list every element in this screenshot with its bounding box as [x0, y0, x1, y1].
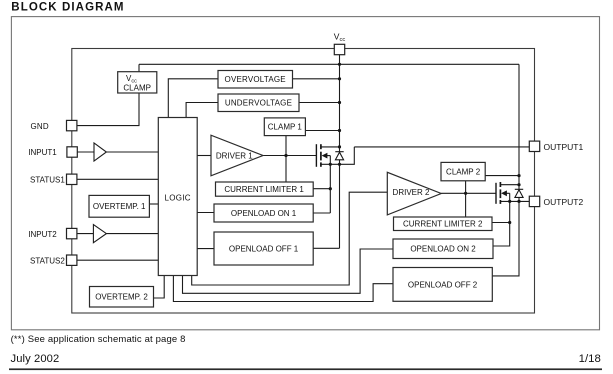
wire overtemp1 to logic — [149, 203, 158, 205]
wire STATUS1 pin to logic — [77, 178, 158, 180]
wire logic bottom to overtemp2 — [154, 276, 165, 299]
svg-text:GND: GND — [31, 122, 49, 131]
wire clamp1 bottom to current limiter 1 top — [285, 136, 287, 182]
wire clamp2 right to Q2 drain rail — [485, 175, 519, 177]
wire driver2 output to Q2 gate — [441, 192, 496, 194]
wire Q1 source to output riser — [321, 147, 354, 164]
svg-text:OVERTEMP. 2: OVERTEMP. 2 — [95, 293, 148, 302]
svg-text:July 2002: July 2002 — [11, 353, 60, 365]
pin INPUT1 — [28, 147, 77, 157]
svg-text:STATUS2: STATUS2 — [30, 256, 65, 265]
pin STATUS2 — [30, 255, 77, 265]
wire undervoltage left to logic top — [186, 103, 218, 118]
wire clamp2 bottom to current limiter 2 top — [465, 181, 467, 217]
svg-text:CLAMP 2: CLAMP 2 — [446, 168, 481, 177]
diode D2 body diode — [515, 189, 523, 197]
wire INPUT1 pin to buffer — [77, 151, 94, 153]
footer rule — [9, 368, 602, 370]
wire Q2 drain rail — [518, 64, 520, 189]
svg-text:DRIVER 2: DRIVER 2 — [393, 188, 430, 197]
box CURRENT LIMITER 2 — [394, 217, 493, 231]
svg-text:CLAMP: CLAMP — [123, 84, 151, 93]
node junction dots — [284, 63, 520, 224]
svg-text:STATUS1: STATUS1 — [30, 176, 65, 185]
svg-text:BLOCK DIAGRAM: BLOCK DIAGRAM — [11, 2, 124, 14]
wire GND to Vcc clamp bottom — [77, 93, 139, 126]
pin STATUS1 — [30, 174, 77, 184]
diode D1 body diode — [335, 152, 343, 160]
pin INPUT2 — [28, 228, 77, 238]
wire Q2 diode bottom / openload off 2 riser — [492, 197, 519, 276]
wire current limiter 1 right to Q1 source node — [313, 188, 330, 190]
wire driver1 output to Q1 gate — [263, 155, 316, 157]
pin Vcc — [334, 32, 346, 55]
wire logic bottom to openload off 2 — [173, 276, 393, 302]
svg-text:OUTPUT1: OUTPUT1 — [544, 142, 584, 152]
wire logic to openload off 1 — [197, 248, 214, 250]
box OPENLOAD OFF 1 — [214, 232, 313, 265]
svg-text:CLAMP 1: CLAMP 1 — [268, 123, 303, 132]
svg-text:OPENLOAD ON 2: OPENLOAD ON 2 — [410, 245, 476, 254]
wire buffer2 to logic — [106, 233, 158, 235]
wire clamp1 right to Vcc rail — [305, 130, 339, 132]
wire Vcc clamp top to clamp rail — [138, 64, 140, 71]
box OPENLOAD ON 1 — [214, 204, 313, 222]
svg-text:UNDERVOLTAGE: UNDERVOLTAGE — [225, 99, 292, 108]
wire logic to driver1 — [197, 155, 211, 157]
box CLAMP 2 — [441, 162, 485, 180]
wire openload off 1 right to Q1 output node — [313, 247, 339, 249]
box CURRENT LIMITER 1 — [216, 182, 314, 196]
svg-text:CURRENT LIMITER 2: CURRENT LIMITER 2 — [403, 220, 483, 229]
wire openload on 1 right to Q1 source node — [313, 212, 330, 214]
buffer input 1 — [94, 143, 106, 161]
wire overvoltage right to Vcc rail — [293, 78, 340, 80]
wire logic to openload on 1 — [197, 212, 214, 214]
chip boundary — [72, 49, 535, 314]
box UNDERVOLTAGE — [218, 94, 299, 112]
wire logic bottom to openload on 2 — [183, 249, 394, 293]
box OVERTEMP. 2 — [90, 287, 154, 308]
op-amp DRIVER 1 — [211, 135, 263, 176]
box Vcc CLAMP — [118, 72, 157, 93]
svg-text:(**) See application schematic: (**) See application schematic at page 8 — [11, 334, 186, 345]
wire STATUS2 pin to logic — [77, 259, 158, 261]
svg-text:OUTPUT2: OUTPUT2 — [544, 197, 584, 207]
box OPENLOAD OFF 2 — [393, 268, 492, 302]
wire Vcc rail diode to output node and down — [339, 160, 341, 249]
box OPENLOAD ON 2 — [393, 239, 493, 259]
box OVERVOLTAGE — [218, 71, 293, 89]
svg-text:OPENLOAD ON 1: OPENLOAD ON 1 — [231, 209, 297, 218]
buffer input 2 — [93, 225, 106, 243]
svg-text:OVERVOLTAGE: OVERVOLTAGE — [225, 75, 286, 84]
wire current limiter 2 right to Q2 source node — [492, 222, 510, 224]
box OVERTEMP. 1 — [89, 195, 149, 217]
pin OUTPUT2 — [529, 196, 583, 207]
box CLAMP 1 — [264, 118, 305, 136]
svg-text:OPENLOAD OFF 2: OPENLOAD OFF 2 — [408, 280, 478, 289]
wire overvoltage left to logic top — [168, 79, 218, 118]
wire buffer1 to logic — [106, 151, 158, 153]
pin GND — [31, 120, 77, 130]
wire to OUTPUT1 pin — [354, 146, 529, 148]
svg-text:OPENLOAD OFF 1: OPENLOAD OFF 1 — [229, 244, 299, 253]
wire undervoltage right to Vcc rail — [299, 102, 340, 104]
wire Vcc rail upper — [339, 55, 341, 152]
svg-text:INPUT1: INPUT1 — [28, 148, 57, 157]
svg-text:DRIVER 1: DRIVER 1 — [216, 151, 253, 160]
svg-text:INPUT2: INPUT2 — [28, 230, 57, 239]
wire openload on 2 right to Q2 body node — [494, 193, 510, 246]
op-amp DRIVER 2 — [387, 172, 441, 215]
wire logic bottom to driver2 input — [192, 192, 388, 285]
svg-text:CURRENT LIMITER 1: CURRENT LIMITER 1 — [224, 185, 304, 194]
pin OUTPUT1 — [529, 141, 583, 152]
svg-text:LOGIC: LOGIC — [164, 194, 190, 203]
wire INPUT2 pin to buffer — [77, 233, 94, 235]
wire top clamp line from Vcc clamp to Q2 drain rail — [139, 63, 519, 65]
wire Q2 source to OUTPUT2 pin — [500, 200, 529, 202]
svg-text:1/18: 1/18 — [579, 353, 601, 365]
box LOGIC — [158, 118, 197, 276]
svg-text:OVERTEMP. 1: OVERTEMP. 1 — [93, 202, 146, 211]
transistor Q1 — [316, 144, 339, 213]
transistor Q2 — [496, 182, 519, 204]
